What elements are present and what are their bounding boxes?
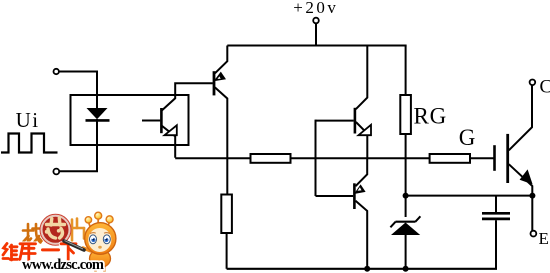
svg-text:+20v: +20v bbox=[293, 0, 338, 17]
svg-text:G: G bbox=[459, 125, 476, 150]
svg-text:Ui: Ui bbox=[16, 108, 40, 132]
svg-text:C: C bbox=[540, 77, 550, 98]
svg-text:E: E bbox=[539, 229, 549, 248]
svg-text:RG: RG bbox=[414, 103, 448, 128]
svg-text:www.dzsc.com: www.dzsc.com bbox=[22, 257, 104, 273]
